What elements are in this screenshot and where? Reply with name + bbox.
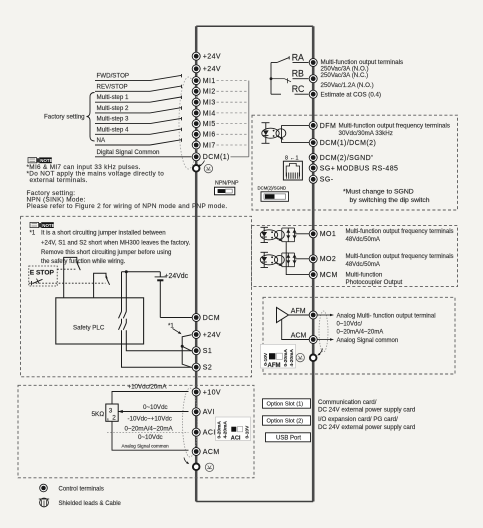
- svg-text:MI6: MI6: [203, 132, 216, 139]
- svg-text:0~20mA/4~20mA: 0~20mA/4~20mA: [337, 329, 384, 335]
- svg-text:Photocoupler Output: Photocoupler Output: [346, 279, 403, 286]
- svg-text:REV/STOP: REV/STOP: [97, 83, 128, 90]
- svg-text:48Vdc/50mA: 48Vdc/50mA: [346, 262, 380, 268]
- svg-text:It is a short circuiting jumpe: It is a short circuiting jumper installe…: [41, 230, 166, 237]
- terminal MO2: [309, 255, 336, 263]
- svg-text:Analog Multi- function output: Analog Multi- function output terminal: [337, 314, 436, 320]
- wire to ACM: [282, 319, 310, 339]
- svg-text:48Vdc/50mA: 48Vdc/50mA: [346, 237, 380, 243]
- svg-text:Option Slot (2): Option Slot (2): [267, 419, 304, 425]
- svg-text:+10Vdc/20mA: +10Vdc/20mA: [128, 384, 168, 391]
- svg-text:NPN/PNP: NPN/PNP: [215, 181, 239, 187]
- wire MO2: [295, 258, 310, 260]
- terminal DCM(1): [192, 153, 230, 161]
- wire AFM out with arrow: [317, 314, 334, 317]
- potentiometer 5K: [92, 404, 119, 422]
- svg-text:←: ←: [290, 155, 295, 161]
- svg-text:DFM: DFM: [320, 123, 336, 130]
- shield drain arrow AFM: [317, 349, 322, 356]
- shield ring below ACM: [193, 464, 200, 471]
- shield drain arrow to DCM(1) ground ring: [198, 161, 204, 168]
- svg-text:DCM(2)/SGND: DCM(2)/SGND: [258, 185, 287, 190]
- svg-text:*1: *1: [30, 230, 36, 237]
- wire pot pin3 to +10V: [112, 392, 189, 405]
- terminal ACM (right): [309, 336, 317, 344]
- terminal +24V (top 2): [192, 65, 221, 73]
- switch FWD/STOP: [95, 74, 182, 81]
- terminal MI5: [192, 120, 216, 128]
- terminal RA: [309, 59, 317, 67]
- svg-text:Digital Signal Common: Digital Signal Common: [97, 149, 160, 156]
- switch NA: [95, 138, 182, 145]
- svg-text:Analog Signal common: Analog Signal common: [337, 338, 399, 344]
- terminal +24V (safety): [192, 331, 221, 339]
- svg-text:MI4: MI4: [203, 110, 216, 117]
- svg-text:ACM: ACM: [291, 333, 307, 340]
- wire ACI (dashed): [107, 432, 189, 434]
- drive unit outline: left rail: [195, 26, 198, 501]
- svg-text:Multi-step 1: Multi-step 1: [97, 94, 130, 101]
- svg-text:2: 2: [112, 414, 116, 421]
- NOTE icon 2: [30, 222, 55, 228]
- svg-text:3: 3: [109, 407, 113, 414]
- MODBUS/DFM dashed enclosure: [252, 115, 458, 210]
- terminal DCM(2)/SGND: [309, 154, 373, 162]
- svg-text:1: 1: [107, 417, 110, 422]
- svg-text:AFM: AFM: [291, 308, 306, 315]
- relay contact network RY1: [271, 56, 309, 94]
- terminal DCM (safety): [192, 314, 220, 322]
- terminal MI1: [192, 77, 216, 85]
- svg-text:SG-: SG-: [320, 177, 334, 184]
- svg-text:E STOP: E STOP: [30, 270, 55, 277]
- svg-text:Multi-function output frequenc: Multi-function output frequency terminal…: [346, 254, 454, 260]
- analog input dashed enclosure: [18, 385, 254, 478]
- E-STOP switch box: [29, 266, 57, 286]
- svg-text:Shielded leads & Cable: Shielded leads & Cable: [59, 501, 122, 507]
- label *1 with arrow: [168, 323, 182, 335]
- wire +24Vdc feed horizontal: [122, 271, 161, 273]
- safety channel wire 1 (to S1): [123, 272, 192, 351]
- svg-text:DC 24V external power supply c: DC 24V external power supply card: [318, 424, 416, 431]
- svg-text:+24V: +24V: [203, 54, 221, 61]
- AFM dashed enclosure: [263, 297, 455, 374]
- svg-text:Factory setting: Factory setting: [44, 114, 85, 121]
- svg-text:+24V: +24V: [203, 66, 221, 73]
- wire opto to DCM: [282, 142, 310, 144]
- svg-text:0~10Vdc: 0~10Vdc: [143, 404, 168, 411]
- switch Multi-step 3: [95, 117, 182, 124]
- svg-text:Estimate at COS (0.4): Estimate at COS (0.4): [321, 92, 382, 99]
- safety channel wire 2 (to S2): [119, 272, 193, 367]
- wire pot pin1 to ACM: [112, 421, 189, 450]
- svg-text:by switching the dip switch: by switching the dip switch: [350, 197, 430, 204]
- terminal S2: [192, 363, 212, 371]
- terminal RB: [309, 75, 317, 83]
- terminal SG+: [309, 164, 398, 172]
- svg-text:MO1: MO1: [320, 231, 336, 238]
- op-amp AFM buffer: [277, 307, 289, 322]
- svg-text:0~10Vdc/: 0~10Vdc/: [337, 322, 363, 328]
- legend: shielded leads symbol: [39, 498, 122, 507]
- svg-text:S1: S1: [203, 348, 212, 355]
- svg-text:Multi-function output frequenc: Multi-function output frequency terminal…: [346, 229, 454, 235]
- NOTE icon 1: [28, 157, 53, 163]
- svg-text:+24V: +24V: [203, 332, 221, 339]
- svg-text:DC 24V external power supply c: DC 24V external power supply card: [318, 407, 416, 414]
- svg-text:Option Slot (1): Option Slot (1): [267, 402, 304, 408]
- terminal AFM: [309, 311, 317, 319]
- svg-text:*Must change to SGND: *Must change to SGND: [343, 189, 414, 196]
- svg-text:+24Vdc: +24Vdc: [165, 273, 189, 280]
- shield drain arrow to analog ground ring: [184, 458, 189, 465]
- option slot 1 box: [263, 399, 311, 408]
- svg-text:NOTE: NOTE: [42, 223, 54, 228]
- wire DCM(1) to bus: [231, 156, 249, 158]
- svg-text:Communication card/: Communication card/: [318, 399, 377, 406]
- battery +24Vdc: [155, 272, 189, 318]
- svg-text:FWD/STOP: FWD/STOP: [97, 73, 130, 80]
- switch REV/STOP: [95, 85, 182, 92]
- optocoupler U-MO1: [260, 227, 284, 242]
- wire battery to DCM: [160, 317, 192, 319]
- wire MO1: [295, 233, 310, 235]
- shield oval around analog rail: [183, 388, 198, 457]
- wire common return bus vertical: [248, 81, 250, 157]
- svg-text:4-20mA: 4-20mA: [289, 349, 295, 367]
- svg-text:5KΩ: 5KΩ: [92, 411, 105, 418]
- terminal MI7: [192, 141, 216, 149]
- dashed nets MI1..MI7 to common bus: [217, 81, 249, 145]
- SGND dip switch SW2: [258, 185, 289, 201]
- svg-text:Please refer to Figure 2 for w: Please refer to Figure 2 for wiring of N…: [27, 203, 228, 210]
- safety function dashed enclosure: [21, 216, 252, 376]
- shield oval around digital input rail: [179, 77, 198, 169]
- terminal MO1: [309, 230, 336, 238]
- terminal DCM(1)/DCM(2): [309, 139, 376, 147]
- terminal ACM: [192, 448, 219, 456]
- svg-text:MI7: MI7: [203, 142, 216, 149]
- svg-text:+10V: +10V: [203, 389, 221, 396]
- svg-text:I/O expansion card/ PG card/: I/O expansion card/ PG card/: [318, 416, 398, 423]
- svg-text:Control terminals: Control terminals: [59, 487, 104, 493]
- svg-text:Multi-function: Multi-function: [346, 271, 383, 278]
- ground (shielded lead) symbol analog: [205, 463, 213, 471]
- jumper +24V/S1/S2: [182, 335, 191, 368]
- terminal DFM: [309, 121, 336, 129]
- svg-text:250Vac/1.2A (N.O.): 250Vac/1.2A (N.O.): [321, 82, 374, 89]
- svg-text:0-10V: 0-10V: [245, 425, 251, 439]
- svg-text:30Vdc/30mA 33kHz: 30Vdc/30mA 33kHz: [339, 130, 393, 137]
- svg-text:AFM: AFM: [268, 363, 281, 369]
- svg-text:the safety function while wiri: the safety function while wiring.: [41, 258, 126, 265]
- terminal AVI: [192, 408, 215, 416]
- svg-text:0~10Vdc: 0~10Vdc: [138, 434, 163, 441]
- legend: control terminal symbol: [40, 484, 104, 492]
- svg-text:+24V, S1 and S2 short when MH3: +24V, S1 and S2 short when MH300 leaves …: [41, 239, 191, 246]
- factory setting brace: [87, 93, 95, 142]
- drive unit outline: bottom wire: [196, 501, 313, 503]
- terminal +10V: [192, 388, 221, 396]
- terminal ACI: [192, 428, 216, 436]
- optocoupler U-DFM: [262, 123, 286, 144]
- svg-text:DCM(1)/DCM(2): DCM(1)/DCM(2): [320, 140, 376, 147]
- svg-text:DCM(2)/SGND*: DCM(2)/SGND*: [320, 154, 373, 162]
- terminal RC: [309, 90, 317, 98]
- svg-text:Safety PLC: Safety PLC: [73, 325, 105, 332]
- RJ45 connector J1: [283, 155, 302, 180]
- svg-text:0~20mA/4~20mA: 0~20mA/4~20mA: [125, 425, 174, 432]
- svg-text:Multi-function output frequenc: Multi-function output frequency terminal…: [339, 123, 450, 130]
- wire opto to DFM: [282, 124, 310, 126]
- option slot 2 box: [263, 416, 311, 425]
- clamp diodes D-MO2: [282, 253, 297, 267]
- svg-text:ACI: ACI: [203, 430, 216, 437]
- svg-text:MI2: MI2: [203, 89, 216, 96]
- mechanical link dashed (lower): [29, 282, 106, 284]
- svg-text:USB Port: USB Port: [276, 436, 301, 442]
- terminal MI3: [192, 98, 216, 106]
- svg-text:4-20mA: 4-20mA: [223, 421, 229, 439]
- terminal SG-: [309, 175, 334, 183]
- svg-text:Multi-step 3: Multi-step 3: [97, 116, 130, 123]
- terminal +24V (top 1): [192, 52, 221, 60]
- svg-text:0-20mA: 0-20mA: [283, 349, 289, 367]
- terminal MI6: [192, 130, 216, 138]
- svg-text:Remove this short circuiting j: Remove this short circuiting jumper befo…: [41, 249, 171, 256]
- svg-text:RB: RB: [292, 69, 304, 79]
- svg-text:RC: RC: [292, 84, 305, 94]
- svg-text:MI3: MI3: [203, 100, 216, 107]
- terminal MI4: [192, 109, 216, 117]
- svg-text:-10Vdc~+10Vdc: -10Vdc~+10Vdc: [128, 415, 172, 422]
- node junction on jumper: [181, 345, 184, 348]
- NPN/PNP dip switch SW1: [215, 181, 240, 195]
- wire common to MCM: [286, 242, 309, 275]
- mechanical link dashed (upper): [57, 268, 76, 270]
- svg-text:MI5: MI5: [203, 121, 216, 128]
- shield ring at DCM(1): [193, 165, 200, 172]
- Safety PLC box: [56, 298, 144, 344]
- svg-text:Analog Signal common: Analog Signal common: [122, 443, 170, 448]
- svg-text:0-20mA: 0-20mA: [216, 421, 222, 439]
- terminal MI2: [192, 87, 216, 95]
- svg-text:DCM(1): DCM(1): [203, 154, 230, 161]
- svg-text:RA: RA: [292, 52, 304, 62]
- svg-text:ACM: ACM: [203, 449, 220, 456]
- drive unit outline: right rail: [312, 26, 315, 501]
- svg-text:250Vac/3A (N.C.): 250Vac/3A (N.C.): [321, 72, 369, 79]
- svg-text:external terminals.: external terminals.: [30, 177, 88, 184]
- terminal MCM: [309, 271, 338, 279]
- ACI dip switch box: [216, 417, 251, 442]
- svg-text:AVI: AVI: [203, 409, 215, 416]
- switch Multi-step 4: [95, 128, 182, 135]
- switch Multi-step 1: [95, 96, 182, 103]
- svg-text:Multi-step 2: Multi-step 2: [97, 105, 130, 112]
- wire AVI to pot pin2 (wiper): [118, 410, 188, 413]
- wire AFM: [289, 314, 310, 316]
- svg-text:MI1: MI1: [203, 78, 216, 85]
- ground (shielded lead) symbol AFM: [296, 353, 304, 361]
- svg-text:MODBUS RS-485: MODBUS RS-485: [337, 165, 399, 172]
- terminal S1: [192, 347, 212, 355]
- node junction on +24Vdc feed: [125, 270, 128, 273]
- svg-text:ACI: ACI: [231, 436, 241, 442]
- clamp diodes D-MO1: [282, 228, 297, 242]
- contact K2 (feedback contact 2): [94, 273, 110, 298]
- svg-text:NOTE: NOTE: [40, 158, 52, 163]
- svg-text:SG+: SG+: [320, 165, 335, 172]
- svg-text:*1: *1: [168, 323, 174, 330]
- svg-text:S2: S2: [203, 365, 212, 372]
- wire Digital Signal Common: [95, 156, 192, 158]
- AFM dip switch box: [261, 344, 296, 369]
- svg-text:NA: NA: [97, 137, 106, 144]
- shield oval AFM cable: [319, 311, 328, 352]
- optocoupler U-MO2: [260, 252, 284, 267]
- node junction RB: [270, 77, 273, 80]
- contact K1 (feedback contact 1): [64, 257, 81, 297]
- MO dashed enclosure: [252, 226, 458, 287]
- svg-text:Multi-step 4: Multi-step 4: [97, 126, 130, 133]
- svg-text:MCM: MCM: [320, 272, 338, 279]
- wire ACM out with arrow: [317, 338, 334, 341]
- switch Multi-step 2: [95, 106, 182, 113]
- svg-text:DCM: DCM: [203, 315, 220, 322]
- shield ring AFM: [310, 355, 317, 362]
- USB port box: [266, 433, 311, 442]
- ground (shielded lead) symbol: [204, 164, 212, 172]
- drive unit outline: top wire: [196, 25, 313, 27]
- svg-text:MO2: MO2: [320, 256, 336, 263]
